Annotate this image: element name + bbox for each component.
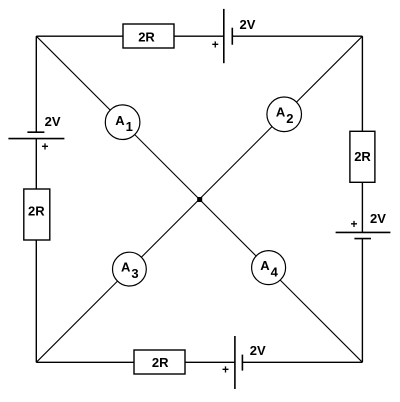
svg-text:A: A bbox=[276, 105, 286, 120]
wire diagonal from top-left corner to bottom-right corner bbox=[36, 36, 362, 362]
wire top side: corner to resistor bbox=[36, 35, 123, 37]
battery 2V top bbox=[224, 9, 233, 63]
svg-text:2R: 2R bbox=[138, 29, 155, 44]
svg-text:A: A bbox=[115, 113, 125, 128]
ammeter A1 bbox=[105, 105, 140, 140]
resistor 2R right bbox=[350, 131, 375, 182]
ammeter A3 bbox=[112, 252, 146, 286]
wire left side: battery to resistor bbox=[35, 139, 37, 189]
wire bottom side: battery to bottom-right corner bbox=[242, 361, 362, 363]
svg-text:A: A bbox=[121, 260, 131, 275]
resistor 2R left bbox=[24, 189, 50, 240]
svg-text:+: + bbox=[212, 37, 219, 51]
battery 2V left bbox=[8, 132, 64, 138]
wire top side: resistor to battery bbox=[174, 35, 224, 37]
battery 2V bottom bbox=[235, 336, 243, 389]
svg-text:+: + bbox=[350, 217, 357, 231]
wire right side: corner to resistor bbox=[361, 36, 363, 131]
svg-text:2V: 2V bbox=[240, 17, 256, 32]
svg-text:2V: 2V bbox=[45, 114, 61, 129]
svg-text:2: 2 bbox=[286, 111, 293, 126]
svg-text:2R: 2R bbox=[152, 355, 169, 370]
svg-text:A: A bbox=[260, 258, 270, 273]
svg-text:+: + bbox=[41, 140, 48, 154]
ammeter A4 bbox=[252, 251, 286, 285]
wire diagonal from bottom-left corner to top-right corner bbox=[36, 36, 362, 362]
ammeter A2 bbox=[267, 97, 302, 132]
svg-text:3: 3 bbox=[131, 266, 138, 281]
svg-text:2R: 2R bbox=[28, 204, 45, 219]
wire right side: resistor to battery bbox=[361, 182, 363, 232]
resistor 2R bottom bbox=[134, 350, 185, 374]
svg-text:4: 4 bbox=[271, 264, 279, 279]
wire left side: resistor to bottom-left corner bbox=[35, 240, 37, 362]
wire bottom side: resistor to battery bbox=[185, 361, 235, 363]
wire top side: battery to top-right corner bbox=[232, 35, 362, 37]
svg-text:2V: 2V bbox=[250, 343, 266, 358]
wire left side: corner to battery bbox=[35, 36, 37, 132]
wire bottom side: corner to resistor bbox=[36, 361, 134, 363]
wire right side: battery to bottom-right corner bbox=[361, 239, 363, 363]
node center junction bbox=[197, 197, 202, 202]
svg-text:+: + bbox=[222, 363, 229, 377]
svg-text:1: 1 bbox=[126, 119, 133, 134]
svg-text:2R: 2R bbox=[354, 149, 371, 164]
svg-text:2V: 2V bbox=[370, 211, 386, 226]
battery 2V right bbox=[336, 232, 391, 238]
resistor 2R top bbox=[123, 24, 174, 48]
